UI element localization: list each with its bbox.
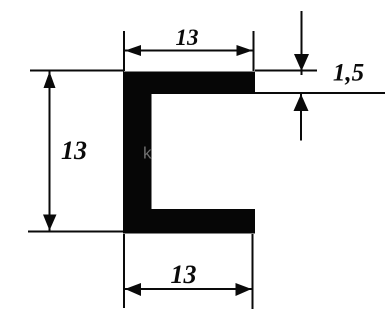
bottom dim: right extension line (252, 234, 254, 309)
thickness dim: top reference line (255, 70, 317, 72)
top dim: left extension line (123, 31, 125, 71)
thickness dim: lower dimension line (300, 94, 302, 141)
left dim: top arrowhead (44, 72, 56, 89)
top dim: dimension line (124, 50, 254, 52)
top dim: left arrowhead (125, 45, 141, 56)
top dim: right extension line (253, 31, 255, 71)
left dim: bottom extension line (28, 231, 123, 233)
svg-text:13: 13 (171, 260, 197, 289)
thickness dim: up arrowhead (294, 94, 309, 111)
thickness dim: down arrowhead (294, 54, 309, 71)
thickness dim: bottom reference line (255, 92, 385, 94)
thickness dim: upper dimension line (301, 11, 303, 75)
top dim: right arrowhead (237, 45, 253, 56)
bottom dim: right arrowhead (236, 283, 252, 296)
left dim: bottom arrowhead (43, 215, 57, 231)
left dim: top extension line (30, 70, 124, 72)
svg-text:13: 13 (176, 25, 199, 50)
bottom dim: left arrowhead (125, 283, 141, 296)
left dim: dimension line (49, 72, 51, 231)
bottom dim: dimension line (124, 288, 253, 290)
C-channel profile body (123, 72, 255, 234)
svg-text:k: k (143, 144, 152, 163)
svg-text:13: 13 (61, 136, 87, 165)
bottom dim: left extension line (123, 234, 125, 308)
svg-text:1,5: 1,5 (333, 60, 364, 87)
